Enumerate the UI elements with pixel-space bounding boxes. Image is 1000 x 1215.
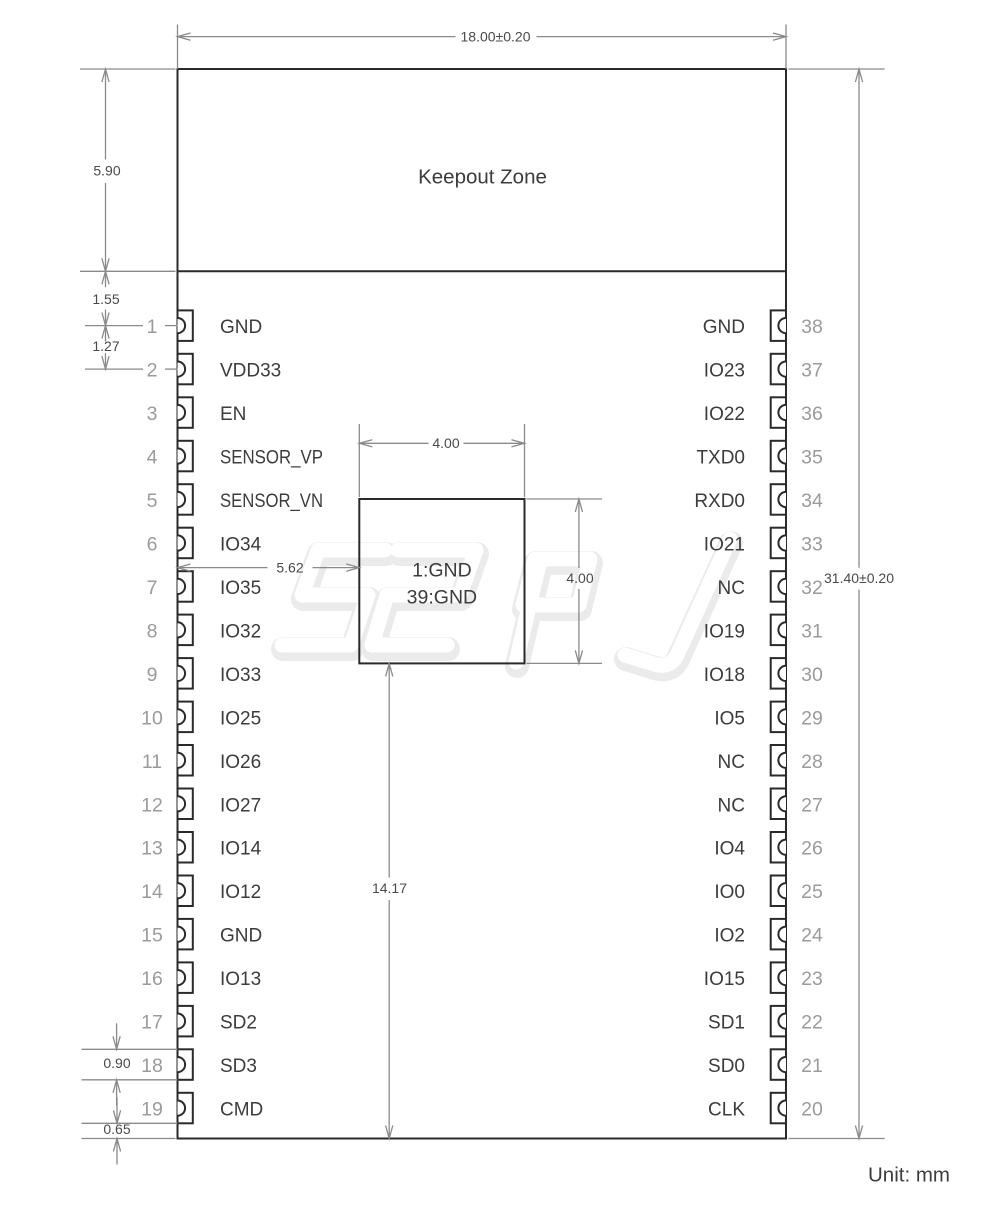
pin 31 pad	[771, 615, 786, 646]
svg-text:SD1: SD1	[708, 1013, 745, 1034]
svg-text:IO13: IO13	[220, 969, 261, 990]
pin 3 pad	[178, 397, 193, 428]
svg-text:IO14: IO14	[220, 839, 262, 860]
svg-text:Keepout Zone: Keepout Zone	[418, 166, 547, 189]
svg-text:SD0: SD0	[708, 1056, 745, 1077]
svg-text:37: 37	[801, 360, 823, 382]
svg-text:1.27: 1.27	[92, 338, 119, 354]
dimension 4.00 height line and arrows	[578, 499, 580, 568]
dimension 5.90 extension lines	[80, 68, 176, 70]
dimension 1.55 line and arrows	[105, 271, 107, 287]
pin 15 pad	[178, 919, 193, 950]
pin 38 pad	[771, 310, 786, 341]
dimension 0.90 arrows	[116, 1023, 118, 1049]
svg-text:31.40±0.20: 31.40±0.20	[824, 570, 894, 586]
svg-text:IO21: IO21	[704, 535, 745, 556]
pin 12 pad	[178, 789, 193, 820]
svg-text:8: 8	[147, 620, 158, 642]
svg-text:IO2: IO2	[714, 926, 745, 947]
pin 4 pad	[178, 441, 193, 472]
svg-text:33: 33	[801, 534, 823, 556]
pin 33 pad	[771, 528, 786, 559]
svg-text:2: 2	[147, 360, 158, 382]
svg-text:IO23: IO23	[704, 361, 745, 382]
svg-text:4: 4	[147, 447, 158, 469]
svg-text:5.62: 5.62	[276, 559, 303, 575]
svg-text:NC: NC	[718, 578, 745, 599]
svg-text:28: 28	[801, 751, 823, 773]
dimension 5.62 line and arrows	[178, 567, 268, 569]
svg-text:19: 19	[141, 1099, 163, 1121]
svg-text:36: 36	[801, 403, 823, 425]
pin 1 center extension line	[85, 325, 143, 327]
svg-text:22: 22	[801, 1012, 823, 1034]
svg-text:Unit: mm: Unit: mm	[868, 1164, 950, 1187]
svg-text:IO35: IO35	[220, 578, 261, 599]
svg-text:IO32: IO32	[220, 621, 261, 642]
svg-text:24: 24	[801, 925, 823, 947]
svg-text:30: 30	[801, 664, 823, 686]
pin 1 pad	[178, 310, 193, 341]
dimension 0.90 extension lines	[82, 1048, 178, 1050]
svg-text:IO34: IO34	[220, 535, 262, 556]
pin 11 pad	[178, 745, 193, 776]
pin 36 pad	[771, 397, 786, 428]
pin 19 pad	[178, 1093, 193, 1124]
dimension 31.40±0.20 line and arrows	[858, 69, 860, 568]
svg-text:0.90: 0.90	[103, 1055, 130, 1071]
dimension 31.40±0.20 extension lines	[789, 68, 885, 70]
pin 23 pad	[771, 962, 786, 993]
svg-text:IO0: IO0	[714, 882, 745, 903]
svg-text:39:GND: 39:GND	[407, 587, 477, 609]
pin 2 center extension line	[85, 368, 143, 370]
pin 30 pad	[771, 658, 786, 689]
pin 10 pad	[178, 702, 193, 733]
pin 22 pad	[771, 1006, 786, 1037]
svg-text:9: 9	[147, 664, 158, 686]
dimension 18.00±0.20 line and arrows	[178, 36, 456, 38]
svg-text:14.17: 14.17	[372, 880, 407, 896]
svg-text:IO18: IO18	[704, 665, 745, 686]
svg-text:NC: NC	[718, 752, 745, 773]
svg-text:11: 11	[142, 751, 162, 773]
pin 21 pad	[771, 1049, 786, 1080]
svg-text:CMD: CMD	[220, 1100, 263, 1121]
dimension 4.00 width extension lines	[358, 424, 360, 497]
pin 8 pad	[178, 615, 193, 646]
pin 32 pad	[771, 571, 786, 602]
svg-text:31: 31	[801, 620, 823, 642]
dimension 18.00±0.20 extension lines	[177, 25, 179, 70]
module outline	[178, 69, 787, 1139]
svg-text:NC: NC	[718, 795, 745, 816]
pin 17 pad	[178, 1006, 193, 1037]
svg-text:15: 15	[141, 925, 163, 947]
svg-text:23: 23	[801, 968, 823, 990]
pin 34 pad	[771, 484, 786, 515]
svg-text:27: 27	[801, 794, 823, 816]
svg-text:20: 20	[801, 1099, 823, 1121]
pin 25 pad	[771, 876, 786, 907]
dimension 5.90 line and arrows	[105, 69, 107, 160]
dimension 14.17 line and arrows	[388, 663, 390, 877]
svg-text:35: 35	[801, 447, 823, 469]
pin 5 pad	[178, 484, 193, 515]
svg-text:29: 29	[801, 707, 823, 729]
pin 27 pad	[771, 789, 786, 820]
dimension 1.27 line and arrows	[105, 326, 107, 342]
svg-text:21: 21	[801, 1055, 823, 1077]
svg-text:4.00: 4.00	[566, 570, 593, 586]
svg-text:6: 6	[147, 534, 158, 556]
svg-text:IO12: IO12	[220, 882, 261, 903]
svg-text:3: 3	[147, 403, 158, 425]
svg-text:25: 25	[801, 881, 823, 903]
svg-text:7: 7	[147, 577, 158, 599]
svg-text:5.90: 5.90	[93, 162, 120, 178]
svg-text:IO22: IO22	[704, 404, 745, 425]
svg-text:IO33: IO33	[220, 665, 261, 686]
svg-text:14: 14	[141, 881, 163, 903]
svg-text:34: 34	[801, 490, 823, 512]
pin 28 pad	[771, 745, 786, 776]
svg-text:VDD33: VDD33	[220, 361, 281, 382]
thermal pad 39 outline	[359, 499, 524, 663]
svg-text:TXD0: TXD0	[696, 448, 745, 469]
svg-text:GND: GND	[220, 926, 262, 947]
pin 24 pad	[771, 919, 786, 950]
svg-text:12: 12	[141, 794, 163, 816]
keepout boundary line	[178, 270, 787, 272]
svg-text:38: 38	[801, 316, 823, 338]
svg-text:10: 10	[141, 707, 163, 729]
svg-text:GND: GND	[220, 317, 262, 338]
watermark logo	[282, 539, 731, 669]
pin 37 pad	[771, 354, 786, 385]
svg-text:EN: EN	[220, 404, 246, 425]
svg-text:SD3: SD3	[220, 1056, 257, 1077]
svg-text:IO26: IO26	[220, 752, 261, 773]
svg-text:IO15: IO15	[704, 969, 745, 990]
pin 35 pad	[771, 441, 786, 472]
pin 20 pad	[771, 1093, 786, 1124]
svg-text:4.00: 4.00	[432, 435, 459, 451]
svg-text:26: 26	[801, 838, 823, 860]
dimension 4.00 height extension lines	[527, 498, 603, 500]
svg-text:0.65: 0.65	[103, 1121, 130, 1137]
svg-text:RXD0: RXD0	[694, 491, 745, 512]
pin 26 pad	[771, 832, 786, 863]
pin 18 pad	[178, 1049, 193, 1080]
svg-text:18: 18	[141, 1055, 163, 1077]
svg-text:GND: GND	[703, 317, 745, 338]
svg-text:16: 16	[141, 968, 163, 990]
pin 29 pad	[771, 702, 786, 733]
svg-text:17: 17	[141, 1012, 163, 1034]
pin 2 pad	[178, 354, 193, 385]
svg-text:5: 5	[147, 490, 158, 512]
pin 6 pad	[178, 528, 193, 559]
svg-text:SENSOR_VN: SENSOR_VN	[220, 491, 323, 512]
svg-text:1: 1	[147, 316, 158, 338]
svg-text:1.55: 1.55	[92, 291, 119, 307]
svg-text:13: 13	[141, 838, 163, 860]
pin 13 pad	[178, 832, 193, 863]
svg-text:IO5: IO5	[714, 708, 745, 729]
dimension 0.65 extension lines	[82, 1122, 178, 1124]
svg-text:SD2: SD2	[220, 1013, 257, 1034]
pin 9 pad	[178, 658, 193, 689]
dimension 0.65 arrows	[116, 1097, 118, 1123]
svg-text:32: 32	[801, 577, 823, 599]
svg-text:CLK: CLK	[708, 1100, 745, 1121]
svg-text:IO27: IO27	[220, 795, 261, 816]
pin 7 pad	[178, 571, 193, 602]
svg-text:IO4: IO4	[714, 839, 745, 860]
svg-text:18.00±0.20: 18.00±0.20	[461, 28, 531, 44]
svg-text:IO19: IO19	[704, 621, 745, 642]
svg-text:SENSOR_VP: SENSOR_VP	[220, 448, 323, 469]
dimension 4.00 width line and arrows	[359, 442, 428, 444]
pin 14 pad	[178, 876, 193, 907]
svg-text:1:GND: 1:GND	[412, 560, 472, 582]
pin 16 pad	[178, 962, 193, 993]
svg-text:IO25: IO25	[220, 708, 261, 729]
